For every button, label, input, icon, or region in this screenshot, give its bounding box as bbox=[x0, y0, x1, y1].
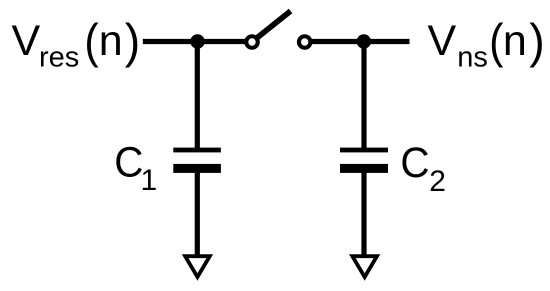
svg-text:res: res bbox=[39, 42, 79, 74]
svg-text:V: V bbox=[12, 17, 41, 65]
svg-text:V: V bbox=[428, 17, 457, 65]
wire C1 top bbox=[195, 42, 200, 151]
svg-text:C: C bbox=[400, 138, 429, 186]
wire C2 top bbox=[361, 42, 366, 151]
wire C2 bottom bbox=[361, 168, 366, 257]
node Vns label bbox=[428, 13, 545, 73]
switch S1 bbox=[246, 11, 310, 48]
label C2 bbox=[400, 138, 445, 198]
svg-text:): ) bbox=[125, 15, 140, 69]
svg-text:ns: ns bbox=[457, 42, 488, 74]
node Vres label bbox=[12, 13, 141, 73]
svg-text:(: ( bbox=[489, 13, 504, 68]
svg-text:C: C bbox=[114, 138, 143, 186]
svg-text:): ) bbox=[529, 15, 544, 69]
ground right bbox=[349, 254, 380, 280]
svg-text:1: 1 bbox=[141, 164, 158, 197]
svg-text:n: n bbox=[99, 17, 123, 65]
capacitor C2 bbox=[340, 148, 388, 173]
node junction dot right bbox=[357, 34, 371, 48]
node junction dot left bbox=[190, 34, 204, 48]
svg-text:2: 2 bbox=[429, 165, 446, 198]
capacitor C1 bbox=[173, 148, 221, 173]
wire right horizontal bbox=[305, 39, 410, 44]
label C1 bbox=[114, 138, 157, 198]
ground left bbox=[182, 254, 213, 280]
svg-text:n: n bbox=[503, 17, 527, 65]
svg-text:(: ( bbox=[84, 13, 99, 68]
wire left horizontal bbox=[143, 39, 252, 44]
wire C1 bottom bbox=[195, 168, 200, 257]
